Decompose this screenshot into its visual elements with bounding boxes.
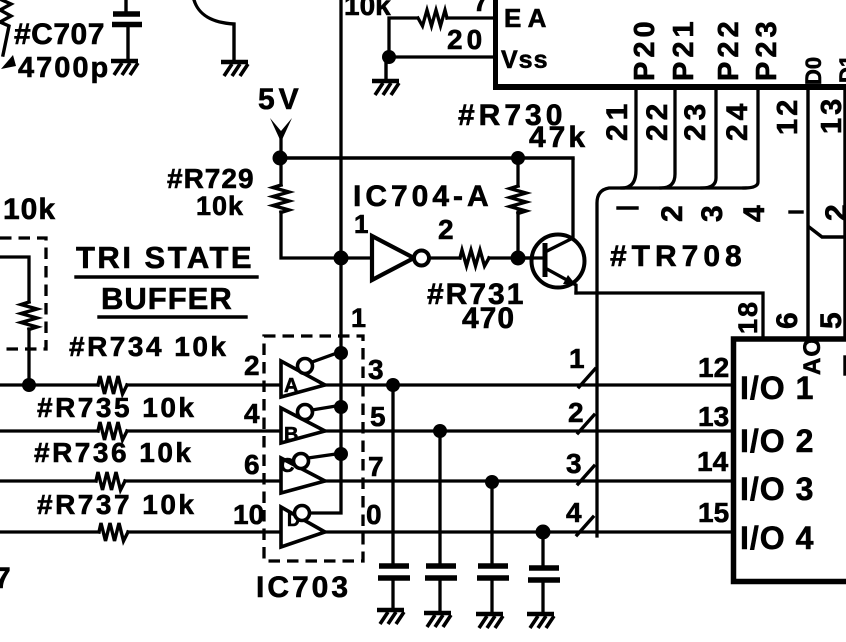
svg-text:B: B xyxy=(284,424,298,446)
IC703 dashed box xyxy=(264,336,363,561)
junction (wire1 left) xyxy=(22,378,36,392)
svg-text:3: 3 xyxy=(696,205,729,222)
svg-text:IC703: IC703 xyxy=(256,571,351,604)
switch wiper 1 xyxy=(579,369,595,387)
svg-text:47k: 47k xyxy=(529,121,588,154)
svg-text:#R729: #R729 xyxy=(167,163,255,194)
svg-text:5: 5 xyxy=(370,401,386,432)
supply arrow xyxy=(270,118,292,142)
dashed box (left, partial) xyxy=(0,238,46,349)
wire branch to right edge xyxy=(809,227,846,237)
resistor R731 xyxy=(460,250,489,266)
buffer A xyxy=(281,361,325,397)
svg-text:14: 14 xyxy=(697,446,729,477)
svg-text:2: 2 xyxy=(656,205,689,222)
resistor R734 xyxy=(98,376,127,394)
resistor R735 xyxy=(98,422,127,440)
svg-text:D1: D1 xyxy=(835,55,846,83)
wire to junction xyxy=(389,18,417,56)
resistor R730 xyxy=(511,151,525,165)
switch wiper 2 xyxy=(578,415,594,433)
svg-text:#TR708: #TR708 xyxy=(610,240,747,273)
svg-text:P23: P23 xyxy=(751,17,783,81)
switch wiper 4 xyxy=(577,517,593,535)
resistor 10k (pin7) xyxy=(418,10,447,26)
wire 5V rail xyxy=(281,156,573,159)
svg-text:E A: E A xyxy=(504,3,547,33)
wire emitter to pin 18 xyxy=(576,293,763,337)
svg-text:2: 2 xyxy=(568,397,584,428)
wire arrow (top-left) xyxy=(1,55,16,69)
svg-text:A: A xyxy=(284,375,298,397)
junction (5V rail) xyxy=(273,151,288,166)
svg-text:7: 7 xyxy=(0,562,11,595)
svg-text:10k: 10k xyxy=(344,0,391,21)
buffer D xyxy=(281,507,325,547)
wire P23 xyxy=(744,89,758,188)
svg-text:12: 12 xyxy=(698,352,729,383)
buffer B xyxy=(281,408,325,443)
wire inverter output xyxy=(429,256,460,259)
svg-text:3: 3 xyxy=(566,448,582,479)
svg-text:BUFFER: BUFFER xyxy=(101,281,233,316)
wire P21 xyxy=(661,89,675,188)
svg-text:IC704-A: IC704-A xyxy=(353,180,493,213)
switch wiper 3 xyxy=(578,466,594,484)
svg-text:I/O 4: I/O 4 xyxy=(740,520,814,556)
svg-text:2: 2 xyxy=(244,350,260,381)
ground (C4) xyxy=(527,614,554,628)
resistor R737 xyxy=(99,523,128,541)
svg-text:7: 7 xyxy=(473,0,489,17)
ground (C2) xyxy=(424,613,451,627)
capacitor C707 xyxy=(124,0,127,11)
junction (base node) xyxy=(511,251,526,266)
svg-text:13: 13 xyxy=(698,401,729,432)
svg-text:#C707: #C707 xyxy=(14,18,105,51)
svg-text:21: 21 xyxy=(601,100,634,141)
svg-text:20: 20 xyxy=(447,24,486,55)
wire P22 xyxy=(702,89,716,188)
svg-text:I/O 3: I/O 3 xyxy=(740,471,814,507)
svg-text:24: 24 xyxy=(721,100,754,141)
resistor R736 xyxy=(96,472,125,490)
svg-text:4: 4 xyxy=(244,398,260,429)
ground (C1) xyxy=(377,610,404,624)
wire D1 (right edge) xyxy=(843,88,846,337)
svg-text:P20: P20 xyxy=(629,17,661,81)
svg-text:D0: D0 xyxy=(801,57,826,85)
svg-text:15: 15 xyxy=(698,497,729,528)
bus wire label 1 xyxy=(618,206,637,209)
svg-text:6: 6 xyxy=(771,312,804,329)
svg-text:#R737 10k: #R737 10k xyxy=(37,489,197,520)
op-amp U1 inverter IC704-A xyxy=(372,236,414,280)
svg-text:10: 10 xyxy=(233,499,264,530)
capacitor C2 (wire2) xyxy=(433,424,447,438)
wire bus 3 xyxy=(0,479,96,482)
svg-text:I/O 2: I/O 2 xyxy=(740,423,814,459)
pin mark right edge xyxy=(843,357,846,374)
wire (arc from component above) xyxy=(194,0,234,61)
svg-text:3: 3 xyxy=(368,354,384,385)
svg-text:10k: 10k xyxy=(3,193,56,226)
capacitor C1 (wire1) xyxy=(386,378,400,392)
svg-text:470: 470 xyxy=(462,302,515,335)
resistor in dashed box xyxy=(0,257,29,302)
svg-text:22: 22 xyxy=(641,100,674,141)
cable wire label 1 xyxy=(790,210,802,213)
ground (C3) xyxy=(476,614,503,628)
IC I/O (bottom right) xyxy=(734,339,846,582)
transistor Q1 TR708 xyxy=(532,235,585,288)
resistor (partial, top-left edge) xyxy=(0,0,11,55)
svg-text:TRI STATE: TRI STATE xyxy=(76,240,254,275)
ground (C707) xyxy=(111,61,138,75)
svg-text:1: 1 xyxy=(351,303,366,333)
resistor R729 xyxy=(279,158,282,185)
svg-text:13: 13 xyxy=(816,96,846,134)
svg-text:#R734 10k: #R734 10k xyxy=(69,331,229,362)
ground (arc wire) xyxy=(221,62,248,76)
junction xyxy=(382,50,396,64)
wire bus collector xyxy=(597,188,745,536)
buffer C xyxy=(281,458,325,493)
wire pin 20 xyxy=(389,55,493,58)
svg-text:0: 0 xyxy=(366,499,382,530)
svg-text:4: 4 xyxy=(566,497,582,528)
svg-text:1: 1 xyxy=(354,209,368,239)
wire bus 2 xyxy=(0,429,98,432)
wire P20 xyxy=(622,89,636,188)
wire bus 4 xyxy=(0,530,99,533)
svg-text:5V: 5V xyxy=(258,83,303,116)
svg-text:12: 12 xyxy=(772,97,804,135)
svg-text:6: 6 xyxy=(244,449,260,480)
capacitor C3 (wire3) xyxy=(485,475,499,489)
IC MCU (top right, partial) xyxy=(493,0,498,86)
svg-text:18: 18 xyxy=(733,300,763,334)
svg-text:Vss: Vss xyxy=(501,46,548,74)
ground (pins 7/20) xyxy=(384,57,387,80)
wire buffer-control vertical net xyxy=(311,0,341,513)
svg-text:5: 5 xyxy=(815,312,846,329)
svg-text:4700p: 4700p xyxy=(18,52,110,84)
capacitor C4 (wire4) xyxy=(536,525,551,540)
wire pin 7 xyxy=(447,16,493,19)
wire D0 / A0 xyxy=(806,91,809,337)
junction (inverter input) xyxy=(334,251,349,266)
svg-text:2: 2 xyxy=(820,204,846,221)
svg-text:#R735 10k: #R735 10k xyxy=(37,392,197,423)
svg-text:P22: P22 xyxy=(713,17,745,81)
svg-text:7: 7 xyxy=(368,451,384,482)
svg-text:P21: P21 xyxy=(668,17,700,81)
svg-text:1: 1 xyxy=(569,343,585,374)
svg-text:10k: 10k xyxy=(196,191,244,221)
svg-text:23: 23 xyxy=(679,100,712,141)
svg-text:AO: AO xyxy=(799,337,826,375)
svg-text:4: 4 xyxy=(738,205,771,222)
svg-text:#R736 10k: #R736 10k xyxy=(34,437,194,468)
svg-text:2: 2 xyxy=(438,214,454,245)
wire bus 1 xyxy=(0,383,98,386)
